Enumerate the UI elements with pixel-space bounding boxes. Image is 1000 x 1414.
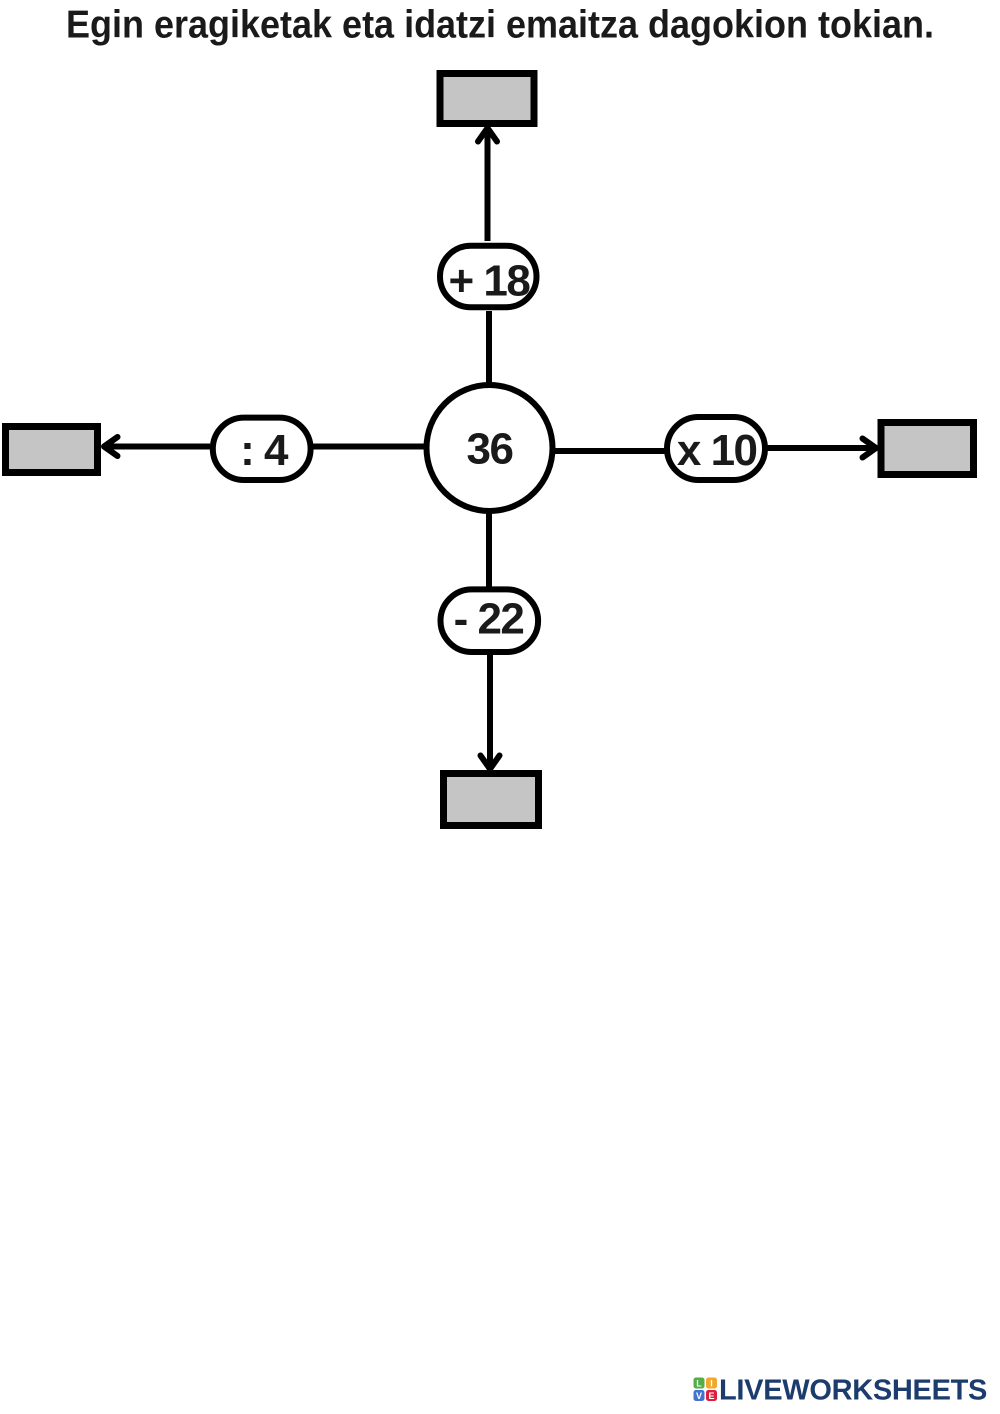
svg-text:I: I bbox=[710, 1379, 713, 1389]
wire: :4 pill to left arrow bbox=[106, 444, 210, 450]
liveworksheets logo icon bbox=[694, 1378, 718, 1402]
wire: circle bottom to -22 pill bbox=[486, 513, 492, 587]
wire: -22 pill to bottom arrow bbox=[487, 654, 493, 766]
svg-text:- 22: - 22 bbox=[454, 594, 524, 643]
answer box top bbox=[440, 74, 534, 124]
svg-text:V: V bbox=[696, 1391, 702, 1401]
operator pill -22 bbox=[441, 589, 539, 652]
operator pill +18 bbox=[440, 246, 537, 308]
svg-text:x 10: x 10 bbox=[677, 426, 757, 475]
arrowhead up bbox=[478, 128, 497, 142]
svg-text:36: 36 bbox=[467, 425, 513, 474]
answer box left bbox=[6, 427, 98, 473]
wire: circle top to +18 pill bbox=[486, 311, 492, 383]
wire: circle left to :4 pill bbox=[312, 444, 425, 450]
answer box right bbox=[881, 423, 974, 475]
svg-text:LIVEWORKSHEETS: LIVEWORKSHEETS bbox=[719, 1375, 987, 1407]
operator pill x10 bbox=[667, 417, 765, 480]
wire: x10 pill to right arrow bbox=[767, 445, 875, 451]
operator pill :4 bbox=[213, 418, 311, 480]
arrowhead right bbox=[863, 439, 877, 458]
svg-text:+ 18: + 18 bbox=[448, 257, 530, 306]
svg-text:Egin eragiketak eta idatzi ema: Egin eragiketak eta idatzi emaitza dagok… bbox=[66, 2, 934, 46]
svg-text:: 4: : 4 bbox=[240, 426, 289, 475]
arrowhead left bbox=[104, 437, 118, 456]
central circle node 36 bbox=[427, 385, 553, 511]
arrowhead down bbox=[481, 756, 500, 770]
svg-text:L: L bbox=[696, 1379, 702, 1389]
title bbox=[66, 2, 934, 46]
wire: circle right to x10 pill bbox=[554, 448, 666, 454]
svg-text:E: E bbox=[708, 1391, 714, 1401]
wire: +18 pill to top arrow bbox=[485, 131, 491, 241]
answer box bottom bbox=[444, 774, 539, 826]
liveworksheets logo text bbox=[719, 1375, 987, 1407]
